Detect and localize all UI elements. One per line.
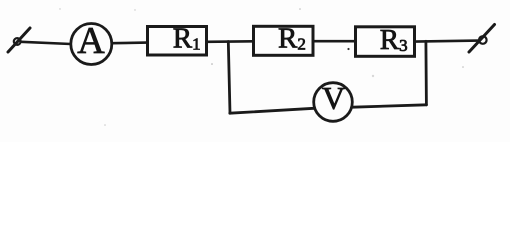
- svg-text:A: A: [77, 20, 105, 62]
- svg-text:R3: R3: [380, 24, 408, 56]
- svg-text:V: V: [322, 80, 345, 116]
